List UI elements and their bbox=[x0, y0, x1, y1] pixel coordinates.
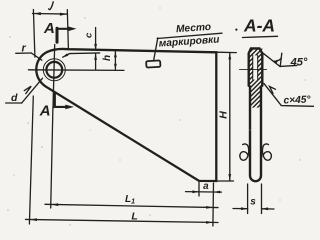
dimension h line bbox=[114, 51, 116, 70]
dimension L1 arrow right bbox=[206, 206, 213, 209]
section hole edge right bbox=[257, 55, 259, 80]
45deg vertical ref line B bbox=[280, 53, 282, 66]
dimension H ext top bbox=[217, 51, 237, 53]
label d shelf bbox=[6, 102, 22, 104]
dimension h arrow up bbox=[114, 51, 117, 57]
marking shelf bbox=[157, 33, 222, 38]
dimension L line bbox=[26, 219, 219, 222]
dimension l ext right bbox=[67, 10, 68, 49]
45deg arc arrowhead bbox=[273, 60, 278, 65]
svg-text:H: H bbox=[217, 111, 229, 119]
section break squiggle left bbox=[240, 144, 249, 160]
cx45 leader bbox=[264, 84, 314, 107]
svg-text:s: s bbox=[250, 197, 256, 208]
svg-text:с×45°: с×45° bbox=[283, 94, 311, 106]
marking leader bbox=[154, 38, 158, 61]
dimension L1 line bbox=[45, 204, 218, 207]
dimension s line left bbox=[233, 208, 248, 210]
centerline horizontal bbox=[28, 69, 124, 72]
section hole edge left bbox=[252, 55, 254, 80]
section cut bar top bbox=[56, 28, 59, 42]
svg-text:h: h bbox=[102, 55, 113, 61]
dimension c line upper bbox=[95, 28, 97, 51]
cx45 open arrowhead bbox=[270, 87, 276, 94]
dimension L1 arrow left bbox=[51, 203, 58, 206]
text: l (script stroke) bbox=[49, 2, 54, 10]
dimension s line right bbox=[262, 208, 275, 210]
section break squiggle right bbox=[262, 144, 271, 160]
dimension l arrow right bbox=[60, 13, 67, 16]
chamfer leader arrowhead bbox=[62, 53, 68, 57]
dimension s arrow right(in) bbox=[261, 207, 268, 210]
dimension l line bbox=[33, 13, 68, 16]
svg-text:a: a bbox=[203, 181, 209, 192]
dimension H arrow bottom bbox=[228, 174, 231, 181]
dimension s arrow left(in) bbox=[241, 207, 248, 210]
svg-text:c: c bbox=[84, 32, 95, 38]
45deg angle arc bbox=[273, 58, 281, 61]
section cut arrow bottom bbox=[56, 106, 66, 108]
section cut bar bottom bbox=[53, 93, 56, 107]
dimension L1 ext left bbox=[51, 108, 53, 208]
dimension h arrow down bbox=[114, 64, 117, 70]
A-A underline bbox=[243, 36, 278, 37]
top chamfer edge line bbox=[63, 53, 100, 57]
dimension H ext bottom bbox=[217, 180, 234, 182]
label r leader bbox=[31, 53, 42, 60]
dimension c arrow down bbox=[94, 44, 97, 51]
svg-text:d: d bbox=[11, 92, 18, 104]
dimension l arrow left bbox=[34, 12, 41, 15]
svg-text:А: А bbox=[43, 20, 55, 37]
dimension a arrow left(in) bbox=[192, 190, 199, 193]
45deg chamfer line A bbox=[263, 53, 280, 67]
dimension l ext left bbox=[33, 10, 35, 58]
plate outline bbox=[36, 49, 216, 181]
dimension s ext left bbox=[247, 184, 249, 214]
dimension H line bbox=[229, 53, 231, 181]
section cut arrow top bbox=[59, 28, 70, 30]
label r shelf bbox=[16, 52, 31, 54]
centerline vertical bbox=[53, 45, 55, 109]
label d open arrowhead bbox=[24, 86, 31, 93]
dimension L ext left bbox=[29, 96, 33, 224]
dimension c arrow up tail bbox=[95, 54, 97, 69]
hole circle d bbox=[46, 62, 62, 78]
stray dot before A-A bbox=[235, 29, 237, 31]
dimension a line bbox=[186, 191, 222, 194]
svg-text:А-А: А-А bbox=[243, 16, 275, 36]
45deg shelf bbox=[280, 65, 297, 66]
svg-text:r: r bbox=[21, 43, 26, 55]
dimension a ext left bbox=[198, 183, 200, 197]
section hole void bbox=[253, 55, 257, 79]
dimension a arrow right(in) bbox=[214, 191, 221, 194]
section hole centerline bbox=[240, 69, 267, 71]
section hatching bbox=[194, 44, 320, 108]
label d leader bbox=[22, 78, 43, 103]
svg-text:А: А bbox=[39, 102, 51, 119]
svg-text:L: L bbox=[131, 210, 137, 222]
dimension H arrow top bbox=[228, 53, 231, 60]
dimension s ext right bbox=[261, 184, 263, 214]
marking rectangle bbox=[146, 60, 160, 67]
dimension L1 / L ext right bbox=[212, 183, 215, 226]
chamfer circle bbox=[43, 59, 65, 81]
section A-A outline bbox=[249, 48, 263, 181]
dimension L arrow left bbox=[30, 218, 37, 221]
dimension L arrow right bbox=[206, 221, 213, 224]
svg-text:45°: 45° bbox=[290, 57, 308, 69]
